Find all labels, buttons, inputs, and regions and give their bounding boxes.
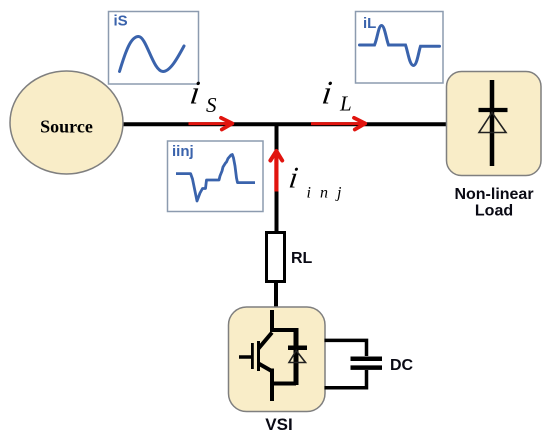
svg-text:Load: Load (475, 202, 513, 219)
svg-text:inj: inj (307, 185, 351, 202)
svg-text:i: i (287, 161, 300, 195)
svg-text:Source: Source (40, 117, 93, 137)
svg-text:iS: iS (114, 13, 128, 30)
svg-text:RL: RL (291, 250, 313, 267)
svg-text:L: L (339, 92, 352, 116)
svg-text:i: i (320, 74, 334, 111)
svg-text:Non-linear: Non-linear (454, 186, 533, 203)
svg-text:DC: DC (390, 357, 414, 374)
svg-text:VSI: VSI (265, 415, 292, 434)
svg-text:iL: iL (363, 15, 376, 32)
svg-text:iinj: iinj (172, 143, 194, 160)
svg-text:S: S (206, 93, 217, 117)
